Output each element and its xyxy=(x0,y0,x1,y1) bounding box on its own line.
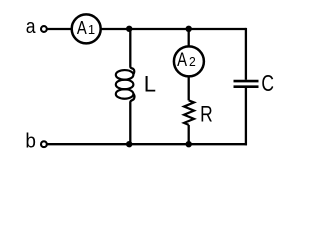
svg-text:C: C xyxy=(261,72,274,97)
wire resistor to bottom node xyxy=(188,125,190,144)
node junction bottom-right xyxy=(186,141,192,147)
wire inductor branch bottom xyxy=(130,94,134,145)
wire A2 branch: top node to resistor xyxy=(188,29,190,100)
svg-text:2: 2 xyxy=(189,54,196,69)
svg-text:b: b xyxy=(25,130,36,153)
svg-text:1: 1 xyxy=(88,22,95,37)
resistor R zigzag xyxy=(184,100,194,125)
wire bottom: terminal b to bottom-right corner xyxy=(47,143,247,145)
svg-text:A: A xyxy=(177,49,187,70)
svg-text:R: R xyxy=(200,103,213,127)
svg-text:L: L xyxy=(144,72,156,97)
wire right branch: capacitor down to bottom corner xyxy=(245,88,247,145)
svg-text:A: A xyxy=(77,17,88,38)
node junction bottom-left xyxy=(126,141,132,147)
node junction top-left xyxy=(126,26,132,32)
inductor L coil loops xyxy=(116,70,134,99)
wire inductor branch top xyxy=(130,29,134,74)
svg-text:a: a xyxy=(26,15,36,37)
wire top: terminal a to top-right corner xyxy=(47,28,246,30)
terminal a open circle xyxy=(41,26,47,32)
terminal b open circle xyxy=(41,141,47,147)
node junction top-right xyxy=(186,26,192,32)
ammeter A1 circle xyxy=(72,14,101,43)
ammeter A2 circle xyxy=(174,46,204,76)
capacitor C plates xyxy=(234,81,259,87)
wire right branch: top corner down to capacitor xyxy=(245,28,247,80)
